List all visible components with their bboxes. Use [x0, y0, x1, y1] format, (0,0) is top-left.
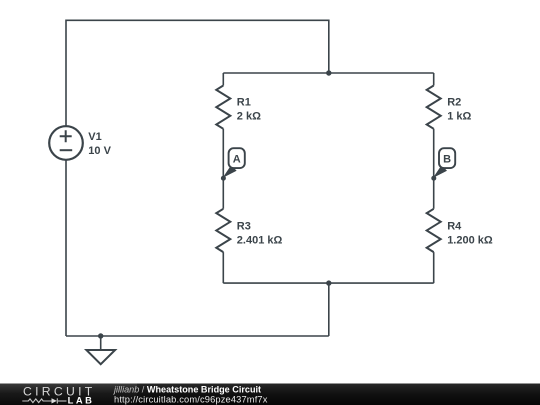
- svg-text:jillianb / Wheatstone Bridge C: jillianb / Wheatstone Bridge Circuit: [112, 384, 261, 394]
- svg-text:R3: R3: [237, 221, 251, 233]
- svg-text:2.401 kΩ: 2.401 kΩ: [237, 235, 283, 247]
- svg-text:R1: R1: [237, 97, 251, 109]
- svg-text:R2: R2: [447, 97, 461, 109]
- svg-text:B: B: [443, 153, 451, 165]
- svg-text:A: A: [233, 153, 241, 165]
- svg-text:R4: R4: [447, 221, 462, 233]
- svg-text:10 V: 10 V: [88, 145, 111, 157]
- svg-text:V1: V1: [88, 131, 101, 143]
- svg-text:http://circuitlab.com/c96pze43: http://circuitlab.com/c96pze437mf7x: [114, 395, 268, 405]
- svg-text:1.200 kΩ: 1.200 kΩ: [447, 235, 493, 247]
- svg-text:1 kΩ: 1 kΩ: [447, 111, 471, 123]
- svg-text:2 kΩ: 2 kΩ: [237, 111, 261, 123]
- svg-text:LAB: LAB: [68, 394, 95, 405]
